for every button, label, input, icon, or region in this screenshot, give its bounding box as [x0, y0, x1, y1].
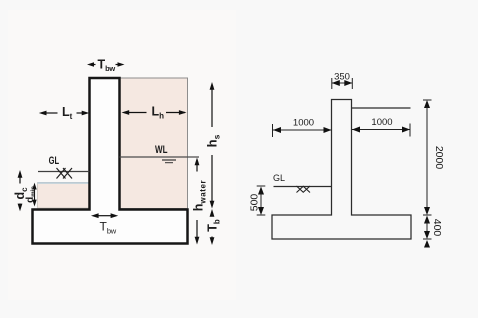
GL ground line, left figure: [38, 171, 90, 173]
svg-text:350: 350: [334, 72, 350, 83]
blue top line of soil cover: [38, 182, 90, 184]
wall T-shape outline (stem + footing), left figure: [33, 78, 188, 244]
dimension h_s (right side, from soil top to footing top): [205, 82, 222, 209]
svg-text:1000: 1000: [293, 118, 314, 129]
svg-text:2000: 2000: [433, 146, 445, 170]
svg-text:GL: GL: [273, 173, 285, 183]
dimension 1000 (right, heel width): [352, 117, 410, 137]
backfill ground line right of stem: [352, 107, 411, 109]
svg-text:WL: WL: [155, 144, 168, 156]
XX hatch marks, right figure: [297, 186, 311, 193]
dimension 500 (GL depth): [249, 186, 266, 215]
soil cover (pink) left of stem, left figure: [38, 183, 90, 209]
dimension L_t: [39, 105, 90, 121]
dimension 350 (stem width): [332, 72, 353, 90]
dimension h_water (from WL down to footing bottom): [192, 158, 208, 245]
svg-text:500: 500: [249, 194, 261, 212]
water surface symbol: [162, 159, 176, 161]
svg-text:1000: 1000: [371, 117, 392, 128]
GL ground line, right figure: [274, 186, 332, 188]
dimension 1000 (left, toe width): [273, 118, 332, 138]
backfill soil (pink) right of stem, left figure: [120, 78, 188, 209]
wall T-shape outline, right figure: [272, 100, 411, 240]
dimension d_c (left side, GL to footing top): [13, 170, 29, 211]
svg-text:GL: GL: [49, 155, 60, 167]
dimension T_b (right side, footing thickness): [206, 209, 222, 245]
WL water line: [120, 156, 200, 158]
dimension d_min (left soil cover depth): [25, 183, 37, 207]
XX hatch marks on GL, left figure: [57, 168, 73, 179]
svg-text:400: 400: [431, 219, 443, 237]
dimension T_bw (top of stem): [87, 57, 125, 73]
dimension 400 (footing thickness): [423, 215, 443, 248]
dimension L_h: [122, 105, 187, 121]
dimension 2000 (wall height): [423, 100, 445, 215]
dimension T_bw (bottom, under stem): [91, 213, 118, 235]
